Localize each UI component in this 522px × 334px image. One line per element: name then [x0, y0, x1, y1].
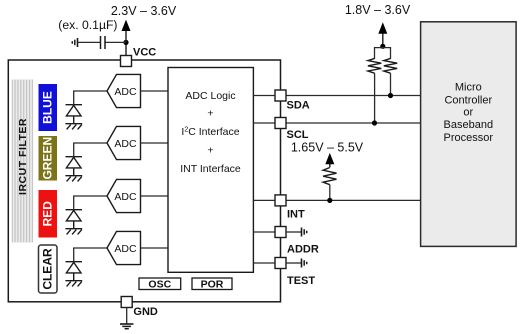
- ADC2 (green): [107, 126, 141, 159]
- resistor R1 (SCL pullup): [368, 58, 381, 73]
- wire: ADDR pin to ground: [286, 231, 301, 233]
- wire: VCC pin to supply node: [125, 42, 127, 55]
- svg-text:ADC: ADC: [114, 243, 137, 255]
- ground (red diode): [65, 229, 82, 235]
- wire: SDA pin to MCU: [286, 95, 421, 97]
- svg-text:VCC: VCC: [133, 47, 156, 59]
- svg-text:1.8V – 3.6V: 1.8V – 3.6V: [345, 3, 411, 17]
- pin VCC: [121, 47, 157, 67]
- pin TEST: [275, 258, 315, 288]
- ground (green diode): [65, 176, 82, 182]
- photodiode D2 (green): [66, 157, 83, 176]
- svg-text:SDA: SDA: [287, 100, 310, 112]
- wire: R3 to INT: [329, 185, 331, 201]
- svg-text:Controller: Controller: [444, 94, 492, 106]
- MCU block: [421, 22, 516, 247]
- ADC1 (blue): [107, 74, 141, 107]
- blue filter box: [39, 84, 58, 131]
- svg-text:INT: INT: [287, 209, 305, 221]
- node: pullup supply junction: [380, 44, 385, 49]
- wire: logic to TEST pin: [253, 262, 275, 264]
- IC boundary: [8, 60, 280, 302]
- wire: logic to INT pin: [253, 199, 275, 201]
- photodiode D3 (red): [66, 210, 83, 229]
- wire: TEST pin to ground: [286, 262, 301, 264]
- svg-text:ADC: ADC: [114, 191, 137, 203]
- svg-text:+: +: [207, 145, 213, 157]
- power arrow 1.8V-3.6V: [378, 22, 387, 46]
- svg-text:1.65V – 5.5V: 1.65V – 5.5V: [291, 141, 364, 155]
- svg-text:Baseband: Baseband: [444, 119, 494, 131]
- wire: ADC1 to logic: [141, 90, 169, 92]
- svg-text:OSC: OSC: [148, 279, 171, 291]
- svg-text:ADC: ADC: [114, 86, 137, 98]
- power-on-reset POR: [192, 278, 232, 291]
- svg-text:ADC: ADC: [114, 138, 137, 150]
- wire: blue diode to ADC1: [74, 91, 107, 105]
- photodiode D4 (clear): [66, 262, 83, 281]
- node: R2-SDA junction: [388, 93, 393, 98]
- resistor R3 (INT pullup): [323, 168, 336, 185]
- wire: supply node to capacitor: [105, 41, 126, 43]
- pin ADDR: [275, 227, 319, 256]
- node: R3-INT junction: [327, 198, 332, 203]
- svg-text:BLUE: BLUE: [41, 91, 55, 124]
- wire: INT pin to MCU: [286, 199, 421, 201]
- wire: ADC4 to logic: [141, 247, 169, 249]
- wire: pullup T-bar: [375, 48, 391, 59]
- svg-text:GND: GND: [133, 306, 158, 318]
- ADC4 (clear): [107, 231, 141, 264]
- node: VCC supply junction: [123, 40, 128, 45]
- wire: GND pin to earth: [126, 308, 128, 324]
- pin SCL: [275, 118, 309, 142]
- pin INT: [275, 195, 305, 221]
- power arrow 2.3V-3.6V: [122, 20, 131, 43]
- svg-text:ADC Logic: ADC Logic: [185, 90, 235, 102]
- oscillator OSC: [139, 278, 181, 291]
- node: R1-SCL junction: [372, 120, 377, 125]
- svg-text:SCL: SCL: [287, 129, 309, 141]
- svg-text:INT Interface: INT Interface: [180, 163, 241, 175]
- wire: logic to SCL pin: [253, 122, 275, 124]
- pin SDA: [275, 90, 310, 112]
- svg-text:+: +: [207, 108, 213, 120]
- pin GND: [121, 297, 158, 318]
- wire: red diode to ADC3: [74, 196, 107, 210]
- photodiode D1 (blue): [66, 105, 83, 124]
- svg-text:POR: POR: [201, 279, 224, 291]
- ground (GND pin, earth): [120, 324, 133, 329]
- IR-cut filter bar: [12, 80, 34, 243]
- red filter box: [39, 190, 58, 238]
- wire: R2 to SDA: [390, 73, 392, 95]
- ground (ADDR, rotated): [302, 228, 307, 237]
- ground (blue diode): [65, 124, 82, 130]
- wire: ADC2 to logic: [141, 142, 169, 144]
- svg-text:Processor: Processor: [444, 132, 494, 144]
- wire: R1 to SCL: [374, 73, 376, 123]
- wire: green diode to ADC2: [74, 143, 107, 157]
- svg-text:I2C Interface: I2C Interface: [181, 126, 239, 138]
- svg-text:ADDR: ADDR: [287, 244, 319, 256]
- ground (clear diode): [65, 281, 82, 287]
- wire: ADC3 to logic: [141, 195, 169, 197]
- svg-text:GREEN: GREEN: [41, 137, 55, 180]
- wire: logic to ADDR pin: [253, 231, 275, 233]
- svg-text:2.3V – 3.6V: 2.3V – 3.6V: [111, 4, 177, 18]
- ADC3 (red): [107, 179, 141, 212]
- svg-text:TEST: TEST: [287, 275, 315, 287]
- svg-text:IRCUT FILTER: IRCUT FILTER: [17, 118, 29, 195]
- svg-text:Micro: Micro: [455, 81, 482, 93]
- ground (capacitor, rotated): [72, 38, 77, 47]
- logic block U1: [168, 68, 253, 273]
- resistor R2 (SDA pullup): [384, 58, 397, 73]
- wire: logic to SDA pin: [253, 95, 275, 97]
- svg-text:CLEAR: CLEAR: [41, 248, 55, 290]
- svg-text:RED: RED: [41, 201, 55, 227]
- wire: SCL pin to MCU: [286, 122, 421, 124]
- green filter box: [39, 136, 58, 181]
- clear filter box: [39, 245, 58, 293]
- capacitor C1 (ex. 0.1uF): [101, 36, 106, 49]
- ground (TEST, rotated): [302, 259, 307, 268]
- wire: clear diode to ADC4: [74, 248, 107, 262]
- svg-text:(ex. 0.1µF): (ex. 0.1µF): [58, 18, 117, 32]
- svg-text:or: or: [463, 107, 473, 119]
- wire: capacitor to ground: [78, 41, 101, 43]
- power arrow 1.65V-5.5V: [325, 153, 334, 167]
